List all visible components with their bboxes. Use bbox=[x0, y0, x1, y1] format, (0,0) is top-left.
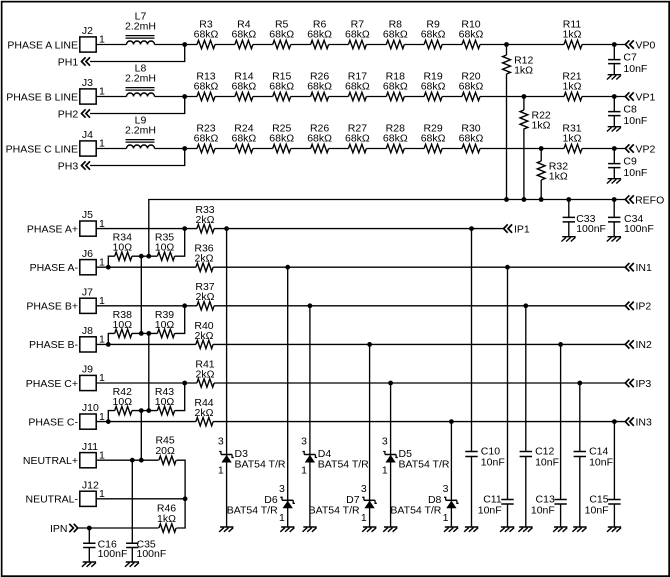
svg-text:C7: C7 bbox=[623, 51, 637, 63]
capacitor C10 bbox=[465, 229, 504, 527]
node IP3 bbox=[625, 378, 651, 390]
junction bbox=[612, 42, 617, 47]
resistor R34 bbox=[113, 232, 133, 261]
svg-text:IN1: IN1 bbox=[636, 262, 653, 274]
node PH1 bbox=[58, 56, 90, 68]
ground bbox=[303, 527, 317, 532]
svg-text:VP0: VP0 bbox=[636, 39, 656, 51]
capacitor C16 bbox=[83, 528, 127, 562]
svg-text:10nF: 10nF bbox=[535, 457, 559, 469]
capacitor C9 bbox=[608, 149, 647, 179]
diode D6 bbox=[227, 483, 295, 524]
resistor R26 bbox=[307, 70, 332, 100]
wire REFO net bbox=[149, 200, 626, 257]
junction bbox=[146, 331, 151, 336]
junction bbox=[469, 226, 474, 231]
diode D3 bbox=[218, 435, 286, 476]
connector J11 bbox=[80, 441, 105, 468]
node IN3 bbox=[625, 416, 652, 428]
svg-text:2.2mH: 2.2mH bbox=[125, 20, 156, 32]
svg-text:J10: J10 bbox=[82, 402, 99, 414]
resistor R36 bbox=[194, 243, 213, 272]
svg-text:1kΩ: 1kΩ bbox=[563, 133, 582, 145]
inductor L9 bbox=[125, 115, 156, 149]
junction bbox=[139, 254, 144, 259]
wire bbox=[96, 460, 185, 499]
resistor R28 bbox=[383, 122, 408, 152]
svg-text:2kΩ: 2kΩ bbox=[195, 407, 214, 419]
svg-text:PH1: PH1 bbox=[58, 56, 79, 68]
resistor R31 bbox=[562, 122, 582, 152]
svg-text:10Ω: 10Ω bbox=[113, 396, 133, 408]
svg-text:3: 3 bbox=[443, 483, 449, 495]
resistor R46 bbox=[157, 503, 176, 533]
svg-text:68kΩ: 68kΩ bbox=[459, 29, 484, 41]
diode D8 bbox=[390, 483, 458, 524]
junction bbox=[182, 146, 187, 151]
svg-text:10Ω: 10Ω bbox=[155, 396, 175, 408]
svg-text:C10: C10 bbox=[481, 445, 500, 457]
svg-text:PH2: PH2 bbox=[58, 108, 79, 120]
svg-text:68kΩ: 68kΩ bbox=[345, 29, 370, 41]
svg-text:1kΩ: 1kΩ bbox=[532, 120, 551, 132]
wire bbox=[131, 460, 133, 543]
svg-text:3: 3 bbox=[301, 435, 307, 447]
svg-text:PHASE B+: PHASE B+ bbox=[26, 301, 78, 313]
wire bbox=[540, 180, 542, 200]
junction bbox=[388, 381, 393, 386]
svg-text:2kΩ: 2kΩ bbox=[196, 368, 215, 380]
svg-text:68kΩ: 68kΩ bbox=[345, 81, 370, 93]
resistor R33 bbox=[195, 204, 214, 233]
junction bbox=[139, 458, 144, 463]
wire bbox=[480, 44, 564, 46]
svg-text:J5: J5 bbox=[82, 209, 93, 221]
svg-text:100nF: 100nF bbox=[98, 548, 128, 560]
svg-text:68kΩ: 68kΩ bbox=[459, 133, 484, 145]
svg-text:10Ω: 10Ω bbox=[113, 242, 133, 254]
wire bbox=[253, 148, 273, 150]
resistor R45 bbox=[155, 435, 176, 465]
junction bbox=[566, 197, 571, 202]
connector J8 bbox=[80, 325, 105, 352]
svg-text:10Ω: 10Ω bbox=[113, 319, 133, 331]
svg-text:VP2: VP2 bbox=[636, 143, 656, 155]
svg-text:BAT54 T/R: BAT54 T/R bbox=[227, 504, 278, 516]
node IN1 bbox=[625, 262, 652, 274]
svg-text:10nF: 10nF bbox=[481, 457, 505, 469]
resistor R5 bbox=[269, 18, 294, 48]
resistor R35 bbox=[155, 232, 175, 261]
node VP1 bbox=[625, 91, 655, 103]
svg-text:J8: J8 bbox=[82, 325, 93, 337]
wire bbox=[96, 266, 625, 268]
svg-text:68kΩ: 68kΩ bbox=[269, 29, 294, 41]
svg-text:3: 3 bbox=[361, 483, 367, 495]
resistor R27 bbox=[345, 122, 370, 152]
capacitor C7 bbox=[608, 45, 647, 75]
wire bbox=[329, 148, 349, 150]
resistor R44 bbox=[194, 397, 213, 426]
junction bbox=[139, 331, 144, 336]
svg-text:BAT54 T/R: BAT54 T/R bbox=[390, 504, 441, 516]
resistor R38 bbox=[113, 309, 133, 338]
svg-text:2kΩ: 2kΩ bbox=[196, 214, 215, 226]
junction bbox=[539, 197, 544, 202]
wire bbox=[442, 148, 462, 150]
resistor R26 bbox=[307, 122, 332, 152]
svg-text:10Ω: 10Ω bbox=[155, 319, 175, 331]
svg-text:68kΩ: 68kΩ bbox=[421, 29, 446, 41]
wire bbox=[287, 267, 289, 527]
svg-text:68kΩ: 68kΩ bbox=[421, 133, 446, 145]
connector J9 bbox=[80, 364, 105, 391]
svg-text:IN2: IN2 bbox=[636, 339, 653, 351]
wire bbox=[215, 148, 235, 150]
capacitor C35 bbox=[126, 539, 166, 562]
junction bbox=[558, 342, 563, 347]
wire bbox=[523, 97, 525, 111]
ground bbox=[444, 527, 458, 532]
svg-text:C14: C14 bbox=[589, 445, 608, 457]
wire bbox=[366, 148, 386, 150]
capacitor C8 bbox=[608, 97, 647, 127]
inductor L8 bbox=[125, 63, 156, 97]
wire bbox=[96, 343, 625, 345]
svg-text:1: 1 bbox=[382, 465, 388, 477]
svg-text:J12: J12 bbox=[82, 479, 99, 491]
svg-text:10nF: 10nF bbox=[531, 505, 555, 517]
wire bbox=[96, 44, 126, 46]
resistor R12 bbox=[503, 55, 534, 77]
node IP1 bbox=[504, 223, 530, 235]
junction bbox=[612, 197, 617, 202]
resistor R22 bbox=[520, 110, 551, 132]
svg-text:NEUTRAL+: NEUTRAL+ bbox=[23, 455, 78, 467]
connector J10 bbox=[80, 402, 105, 429]
svg-text:68kΩ: 68kΩ bbox=[194, 29, 219, 41]
wire bbox=[366, 96, 386, 98]
svg-text:2.2mH: 2.2mH bbox=[125, 124, 156, 136]
svg-text:10nF: 10nF bbox=[478, 505, 502, 517]
wire bbox=[96, 228, 503, 230]
svg-text:10nF: 10nF bbox=[623, 63, 647, 75]
svg-text:C11: C11 bbox=[483, 493, 502, 505]
resistor R29 bbox=[421, 122, 446, 152]
wire bbox=[366, 44, 386, 46]
svg-text:3: 3 bbox=[382, 435, 388, 447]
wire bbox=[140, 411, 142, 461]
svg-text:IPN: IPN bbox=[50, 523, 68, 535]
diode D5 bbox=[382, 435, 450, 476]
wire bbox=[291, 96, 311, 98]
wire bbox=[450, 422, 452, 527]
resistor R6 bbox=[307, 18, 332, 48]
svg-text:68kΩ: 68kΩ bbox=[269, 133, 294, 145]
wire bbox=[329, 96, 349, 98]
wire bbox=[329, 44, 349, 46]
wire bbox=[506, 45, 508, 56]
junction bbox=[182, 42, 187, 47]
svg-text:68kΩ: 68kΩ bbox=[232, 29, 257, 41]
node PH3 bbox=[58, 160, 90, 172]
capacitor C33 bbox=[563, 200, 606, 237]
wire bbox=[480, 148, 564, 150]
node IN2 bbox=[625, 339, 652, 351]
svg-text:3: 3 bbox=[279, 483, 285, 495]
svg-text:1: 1 bbox=[443, 512, 449, 524]
wire bbox=[523, 129, 525, 200]
ground bbox=[607, 237, 621, 242]
svg-text:1: 1 bbox=[218, 465, 224, 477]
wire bbox=[148, 333, 150, 410]
capacitor C13 bbox=[531, 344, 567, 527]
svg-text:PHASE B LINE: PHASE B LINE bbox=[6, 91, 78, 103]
junction bbox=[539, 146, 544, 151]
junction bbox=[523, 303, 528, 308]
node IP2 bbox=[625, 301, 651, 313]
wire bbox=[582, 148, 625, 150]
junction bbox=[182, 226, 187, 231]
svg-text:PHASE A LINE: PHASE A LINE bbox=[7, 39, 78, 51]
svg-text:68kΩ: 68kΩ bbox=[383, 133, 408, 145]
ground bbox=[280, 527, 294, 532]
resistor R30 bbox=[459, 122, 484, 152]
junction bbox=[182, 303, 187, 308]
ground bbox=[572, 527, 586, 532]
ground bbox=[553, 527, 567, 532]
wire bbox=[96, 148, 126, 150]
wire bbox=[215, 44, 235, 46]
svg-text:J7: J7 bbox=[82, 286, 93, 298]
resistor R3 bbox=[194, 18, 219, 48]
svg-text:1: 1 bbox=[361, 512, 367, 524]
junction bbox=[367, 342, 372, 347]
junction bbox=[522, 197, 527, 202]
resistor R23 bbox=[194, 122, 219, 152]
wire bbox=[226, 229, 228, 527]
svg-text:68kΩ: 68kΩ bbox=[459, 81, 484, 93]
node IPN bbox=[50, 523, 78, 535]
svg-text:J9: J9 bbox=[82, 364, 93, 376]
ground bbox=[518, 527, 532, 532]
junction bbox=[285, 265, 290, 270]
capacitor C15 bbox=[585, 422, 621, 527]
resistor R18 bbox=[383, 70, 408, 100]
resistor R19 bbox=[421, 70, 446, 100]
svg-text:IP2: IP2 bbox=[636, 301, 652, 313]
wire bbox=[390, 383, 392, 527]
svg-text:2kΩ: 2kΩ bbox=[195, 253, 214, 265]
svg-text:C9: C9 bbox=[623, 155, 637, 167]
wire bbox=[291, 44, 311, 46]
svg-text:1kΩ: 1kΩ bbox=[549, 171, 568, 183]
svg-text:68kΩ: 68kΩ bbox=[383, 81, 408, 93]
svg-text:3: 3 bbox=[218, 435, 224, 447]
svg-text:1: 1 bbox=[301, 465, 307, 477]
wire bbox=[215, 96, 235, 98]
wire bbox=[96, 498, 185, 500]
junction bbox=[139, 408, 144, 413]
svg-text:J11: J11 bbox=[82, 441, 98, 453]
svg-text:100nF: 100nF bbox=[576, 223, 606, 235]
resistor R15 bbox=[269, 70, 294, 100]
junction bbox=[106, 419, 111, 424]
svg-text:1kΩ: 1kΩ bbox=[514, 65, 533, 77]
svg-text:68kΩ: 68kΩ bbox=[345, 133, 370, 145]
ground bbox=[464, 527, 478, 532]
svg-text:68kΩ: 68kΩ bbox=[194, 81, 219, 93]
wire bbox=[108, 383, 184, 422]
svg-text:1kΩ: 1kΩ bbox=[563, 29, 582, 41]
wire bbox=[108, 229, 184, 268]
svg-text:100nF: 100nF bbox=[624, 223, 654, 235]
wire bbox=[442, 44, 462, 46]
wire bbox=[90, 45, 197, 62]
svg-text:IP1: IP1 bbox=[514, 223, 530, 235]
svg-text:BAT54 T/R: BAT54 T/R bbox=[318, 459, 369, 471]
resistor R21 bbox=[562, 70, 582, 100]
wire bbox=[369, 344, 371, 527]
svg-text:J4: J4 bbox=[82, 129, 93, 141]
wire bbox=[582, 96, 625, 98]
diode D4 bbox=[301, 435, 369, 476]
ground bbox=[82, 562, 96, 567]
connector J7 bbox=[80, 286, 105, 313]
junction bbox=[224, 226, 229, 231]
svg-text:68kΩ: 68kΩ bbox=[232, 133, 257, 145]
resistor R9 bbox=[421, 18, 446, 48]
node VP2 bbox=[625, 143, 655, 155]
svg-text:20Ω: 20Ω bbox=[155, 445, 175, 457]
connector J3 bbox=[80, 77, 105, 104]
resistor R10 bbox=[459, 18, 484, 48]
svg-text:68kΩ: 68kΩ bbox=[307, 133, 332, 145]
ground bbox=[607, 179, 621, 184]
junction bbox=[504, 42, 509, 47]
ground bbox=[219, 527, 233, 532]
junction bbox=[130, 458, 135, 463]
resistor R8 bbox=[383, 18, 408, 48]
wire bbox=[90, 149, 197, 166]
junction bbox=[183, 496, 188, 501]
junction bbox=[504, 197, 509, 202]
connector J5 bbox=[80, 209, 105, 236]
svg-text:1kΩ: 1kΩ bbox=[563, 81, 582, 93]
resistor R24 bbox=[232, 122, 257, 152]
wire bbox=[309, 306, 311, 527]
svg-text:VP1: VP1 bbox=[636, 91, 656, 103]
wire bbox=[540, 149, 542, 162]
junction bbox=[106, 265, 111, 270]
svg-text:BAT54 T/R: BAT54 T/R bbox=[235, 459, 286, 471]
wire bbox=[78, 499, 185, 528]
junction bbox=[182, 94, 187, 99]
resistor R14 bbox=[232, 70, 257, 100]
resistor R43 bbox=[155, 386, 175, 415]
svg-text:PH3: PH3 bbox=[58, 160, 79, 172]
svg-text:C13: C13 bbox=[536, 493, 555, 505]
node REFO bbox=[625, 194, 664, 206]
junction bbox=[577, 381, 582, 386]
wire bbox=[90, 97, 197, 114]
svg-text:PHASE A-: PHASE A- bbox=[30, 262, 79, 274]
wire bbox=[140, 256, 142, 333]
wire bbox=[96, 305, 625, 307]
resistor R42 bbox=[113, 386, 133, 415]
resistor R32 bbox=[537, 161, 568, 183]
wire bbox=[442, 96, 462, 98]
ground bbox=[500, 527, 514, 532]
junction bbox=[182, 381, 187, 386]
resistor R37 bbox=[195, 281, 214, 310]
svg-text:C8: C8 bbox=[623, 103, 637, 115]
svg-text:C12: C12 bbox=[535, 445, 554, 457]
svg-text:10nF: 10nF bbox=[585, 505, 609, 517]
wire bbox=[253, 44, 273, 46]
svg-text:PHASE C+: PHASE C+ bbox=[26, 378, 78, 390]
wire bbox=[253, 96, 273, 98]
resistor R4 bbox=[232, 18, 257, 48]
wire bbox=[404, 96, 424, 98]
svg-text:PHASE A+: PHASE A+ bbox=[27, 223, 78, 235]
resistor R17 bbox=[345, 70, 370, 100]
diode D7 bbox=[309, 483, 377, 524]
svg-text:10Ω: 10Ω bbox=[155, 242, 175, 254]
resistor R39 bbox=[155, 309, 175, 338]
resistor R13 bbox=[194, 70, 219, 100]
svg-text:IP3: IP3 bbox=[636, 378, 652, 390]
ground bbox=[607, 75, 621, 80]
wire bbox=[96, 96, 126, 98]
svg-text:2kΩ: 2kΩ bbox=[196, 291, 215, 303]
junction bbox=[612, 146, 617, 151]
svg-text:1: 1 bbox=[279, 512, 285, 524]
capacitor C34 bbox=[608, 200, 654, 237]
wire bbox=[480, 96, 564, 98]
capacitor C14 bbox=[574, 383, 613, 527]
resistor R25 bbox=[269, 122, 294, 152]
svg-text:BAT54 T/R: BAT54 T/R bbox=[399, 459, 450, 471]
svg-text:BAT54 T/R: BAT54 T/R bbox=[309, 504, 360, 516]
svg-text:PHASE B-: PHASE B- bbox=[29, 339, 79, 351]
junction bbox=[612, 419, 617, 424]
resistor R20 bbox=[459, 70, 484, 100]
ground bbox=[125, 562, 139, 567]
svg-text:2.2mH: 2.2mH bbox=[125, 72, 156, 84]
svg-text:10nF: 10nF bbox=[623, 167, 647, 179]
wire bbox=[506, 74, 508, 200]
svg-text:68kΩ: 68kΩ bbox=[307, 81, 332, 93]
svg-text:68kΩ: 68kΩ bbox=[421, 81, 446, 93]
wire bbox=[96, 382, 625, 384]
junction bbox=[106, 342, 111, 347]
svg-text:NEUTRAL-: NEUTRAL- bbox=[25, 494, 78, 506]
node VP0 bbox=[625, 39, 655, 51]
svg-text:J3: J3 bbox=[82, 77, 93, 89]
connector J2 bbox=[80, 25, 105, 52]
resistor R40 bbox=[194, 320, 213, 349]
wire bbox=[404, 148, 424, 150]
junction bbox=[146, 254, 151, 259]
junction bbox=[449, 419, 454, 424]
svg-text:10nF: 10nF bbox=[623, 115, 647, 127]
capacitor C11 bbox=[478, 267, 514, 527]
svg-text:68kΩ: 68kΩ bbox=[269, 81, 294, 93]
svg-text:2kΩ: 2kΩ bbox=[195, 330, 214, 342]
svg-text:C15: C15 bbox=[589, 493, 608, 505]
junction bbox=[87, 526, 92, 531]
